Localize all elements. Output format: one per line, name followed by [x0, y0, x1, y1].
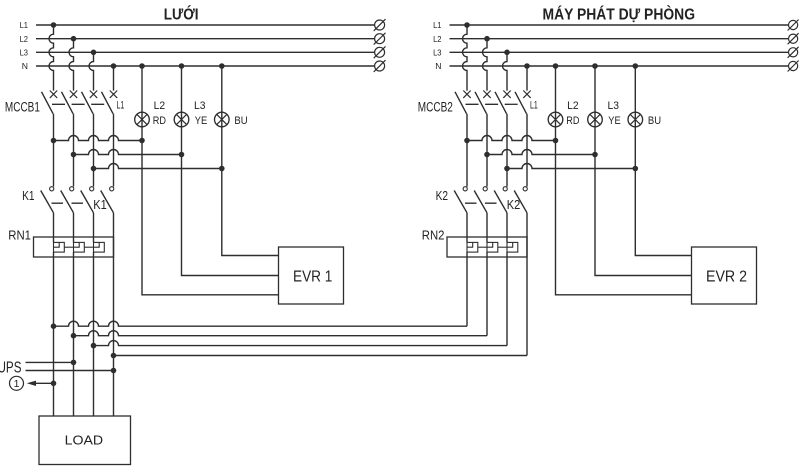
wire MCCB1 pole L3 output	[93, 114, 95, 187]
breaker MCCB2 pole L3 (X contact + blade)	[495, 91, 511, 114]
wire paralleling line 3 (grid to generator)	[94, 341, 508, 346]
svg-text:RN1: RN1	[8, 228, 31, 243]
wire N bus to lamp RD (generator)	[555, 66, 557, 141]
junction lamp column on N bus (generator)	[592, 63, 598, 69]
phase terminal L1 (grid)	[374, 19, 386, 31]
svg-text:K1: K1	[22, 189, 34, 203]
junction at lamp column 3 (grid)	[219, 166, 225, 172]
junction on pole L3 (generator)	[504, 166, 510, 172]
contactor K2 pole N (NO contact)	[514, 187, 527, 213]
junction paralleling line 1 on grid pole	[51, 323, 57, 329]
RN1 heater element pole L2	[74, 242, 85, 252]
junction L3 tap (grid)	[91, 50, 97, 56]
wire lamp column BU to EVR 2	[635, 169, 691, 256]
svg-text:MCCB2: MCCB2	[418, 100, 453, 115]
wire K1 pole L1 to RN1	[53, 213, 55, 243]
breaker MCCB2 pole L1 (X contact + blade)	[455, 91, 471, 114]
svg-text:L1: L1	[530, 100, 538, 112]
svg-text:L2: L2	[20, 34, 29, 44]
wire lamp column BU to EVR 1	[222, 169, 279, 256]
svg-text:RD: RD	[566, 115, 579, 127]
wire phase L3 to lamp/EVR node (generator)	[507, 164, 635, 169]
wire MCCB1 pole N output	[113, 114, 115, 187]
wire MCCB1 pole L2 output	[73, 114, 75, 187]
RN2 heater element pole L2	[487, 242, 498, 252]
junction L1 tap (generator)	[464, 22, 470, 28]
wire K2 pole L3 to RN2	[506, 213, 508, 243]
wire paralleling line 2 (grid to generator)	[74, 331, 488, 336]
svg-text:L3: L3	[20, 48, 29, 58]
indicator lamp RD (generator)	[548, 112, 563, 127]
wire UPS feed 1	[26, 361, 74, 363]
wire MCCB1 pole L1 output	[53, 114, 55, 187]
wire RN2 pole 1 output to paralleling line	[466, 252, 468, 326]
indicator lamp YE (generator)	[588, 112, 603, 127]
wire RN1 pole 2 output to LOAD	[73, 252, 75, 416]
phase terminal N (generator)	[788, 61, 799, 72]
contactor K2 pole L3 (NO contact)	[494, 187, 507, 213]
RN1 heater element pole L3	[94, 242, 105, 252]
svg-text:L2: L2	[154, 100, 166, 112]
wire RN2 pole 3 output to paralleling line	[506, 252, 508, 346]
wire L3 bus (generator)	[450, 51, 789, 53]
wire K2 pole L1 to RN2	[466, 213, 468, 243]
junction N tap (grid)	[111, 63, 117, 69]
wire RN2 pole 4 output to paralleling line	[526, 213, 528, 356]
wire N bus to lamp YE (generator)	[594, 66, 596, 155]
svg-text:L2: L2	[567, 100, 579, 112]
wire N bus to lamp BU (grid)	[221, 66, 223, 169]
RN1 heater element pole L1	[54, 242, 65, 252]
junction UPS feed 1	[71, 360, 77, 366]
wire MCCB2 pole L2 output	[486, 114, 488, 187]
breaker MCCB2 pole N (X contact + blade)	[515, 91, 531, 114]
MCCB2 linkage (dashed)	[466, 103, 519, 105]
wire N bus (generator)	[450, 65, 789, 67]
wire MCCB2 pole N output	[526, 114, 528, 187]
contactor K1 pole N (NO contact)	[101, 187, 114, 213]
wire L3 bus (grid)	[36, 51, 375, 53]
wire phase L1 to lamp/EVR node (grid)	[54, 136, 143, 141]
wire L2 bus (generator)	[450, 38, 789, 40]
svg-text:L2: L2	[433, 34, 442, 44]
wire paralleling line 1 (grid to generator)	[54, 321, 468, 326]
wire lamp column RD to EVR 1	[142, 141, 279, 295]
wire K1 pole L2 to RN1	[73, 213, 75, 243]
voltage relay EVR 1 body	[279, 247, 344, 304]
wire MCCB2 pole L1 output	[466, 114, 468, 187]
RN2 heater link 1	[478, 246, 487, 248]
contactor K1 pole L1 (NO contact)	[41, 187, 54, 213]
wire L2 bus (grid)	[36, 38, 375, 40]
junction lamp column on N bus (grid)	[219, 63, 225, 69]
wire RN2 pole 2 output to paralleling line	[486, 252, 488, 336]
phase terminal L3 (grid)	[374, 46, 386, 58]
indicator lamp YE (grid)	[174, 112, 189, 127]
svg-text:1: 1	[14, 378, 20, 390]
K1 linkage (dashed)	[52, 202, 85, 204]
junction UPS feed 2	[111, 368, 117, 374]
junction on pole L1 (generator)	[464, 138, 470, 144]
wire RN1 pole 3 output to LOAD	[93, 252, 95, 416]
svg-text:K2: K2	[436, 189, 448, 203]
breaker MCCB2 pole L2 (X contact + blade)	[475, 91, 491, 114]
indicator lamp RD (grid)	[135, 112, 150, 127]
wire tap N to MCCB1	[113, 66, 115, 91]
wire K2 pole L2 to RN2	[486, 213, 488, 243]
wire phase L2 to lamp/EVR node (generator)	[487, 150, 595, 155]
junction at lamp column 1 (grid)	[139, 138, 145, 144]
svg-text:L1: L1	[20, 20, 29, 30]
svg-text:L1: L1	[433, 20, 442, 30]
contactor K2 pole L2 (NO contact)	[474, 187, 487, 213]
svg-text:YE: YE	[608, 115, 620, 127]
junction L2 tap (generator)	[484, 36, 490, 42]
junction paralleling line 3 on grid pole	[91, 343, 97, 349]
indicator lamp BU (generator)	[628, 112, 643, 127]
junction callout on pole 1	[51, 381, 57, 387]
junction on pole L2 (grid)	[71, 152, 77, 158]
breaker MCCB1 pole L2 (X contact + blade)	[62, 91, 78, 114]
svg-text:EVR 2: EVR 2	[706, 269, 747, 286]
junction at lamp column 2 (generator)	[592, 152, 598, 158]
junction on pole L3 (grid)	[91, 166, 97, 172]
wire L1 bus (grid)	[36, 24, 375, 26]
RN2 heater element pole L1	[467, 242, 478, 252]
phase terminal L3 (generator)	[788, 47, 799, 58]
junction lamp column on N bus (generator)	[553, 63, 559, 69]
phase terminal N (grid)	[374, 60, 386, 72]
junction lamp column on N bus (generator)	[633, 63, 639, 69]
svg-text:UPS: UPS	[0, 359, 22, 376]
wire tap L2 to MCCB1	[69, 39, 74, 91]
junction L1 tap (grid)	[51, 22, 57, 28]
RN1 heater link 2	[84, 246, 93, 248]
wire RN1 pole 1 output to LOAD	[53, 252, 55, 416]
breaker MCCB1 pole L1 (X contact + blade)	[42, 91, 58, 114]
wire phase L1 to lamp/EVR node (generator)	[467, 136, 556, 141]
svg-text:L1: L1	[117, 100, 125, 112]
wire tap L1 to MCCB1	[49, 25, 54, 91]
RN2 heater link 2	[498, 246, 507, 248]
svg-text:BU: BU	[648, 115, 661, 127]
wire N bus to lamp RD (grid)	[141, 66, 143, 141]
RN1 heater link 1	[64, 246, 73, 248]
svg-text:L3: L3	[433, 48, 442, 58]
phase terminal L1 (generator)	[788, 20, 799, 31]
wire tap L3 to MCCB1	[89, 52, 94, 90]
wire lamp column RD to EVR 2	[556, 141, 692, 295]
wire tap L2 to MCCB2	[483, 39, 488, 91]
junction at lamp column 2 (grid)	[179, 152, 185, 158]
callout arrow	[27, 381, 54, 386]
junction L3 tap (generator)	[504, 50, 510, 56]
wire K1 pole L3 to RN1	[93, 213, 95, 243]
svg-text:N: N	[22, 61, 28, 71]
LOAD block	[39, 416, 131, 465]
contactor K1 pole L2 (NO contact)	[61, 187, 74, 213]
wire UPS feed 2	[26, 370, 114, 372]
junction lamp column on N bus (grid)	[139, 63, 145, 69]
breaker MCCB1 pole N (X contact + blade)	[102, 91, 118, 114]
voltage relay EVR 2 body	[692, 247, 757, 304]
junction N tap (generator)	[524, 63, 530, 69]
overload relay RN2 body	[447, 237, 527, 257]
svg-text:LƯỚI: LƯỚI	[164, 6, 199, 24]
overload relay RN1 body	[34, 237, 114, 257]
svg-text:RN2: RN2	[422, 228, 445, 243]
svg-text:N: N	[435, 61, 441, 71]
callout circle 1	[10, 376, 24, 390]
wire tap L1 to MCCB2	[463, 25, 468, 91]
svg-text:MCCB1: MCCB1	[5, 100, 40, 115]
junction L2 tap (grid)	[71, 36, 77, 42]
svg-text:L3: L3	[194, 100, 206, 112]
contactor K2 pole L1 (NO contact)	[454, 187, 467, 213]
wire paralleling line 4 (grid to generator)	[114, 355, 528, 357]
wire tap L3 to MCCB2	[503, 52, 508, 90]
junction at lamp column 3 (generator)	[633, 166, 639, 172]
svg-text:K1: K1	[93, 198, 107, 212]
svg-text:L3: L3	[608, 100, 620, 112]
junction paralleling line 2 on grid pole	[71, 333, 77, 339]
wire lamp column YE to EVR 2	[595, 155, 692, 276]
junction at lamp column 1 (generator)	[553, 138, 559, 144]
K2 linkage (dashed)	[465, 202, 498, 204]
junction on pole L1 (grid)	[51, 138, 57, 144]
wire N bus to lamp BU (generator)	[634, 66, 636, 169]
breaker MCCB1 pole L3 (X contact + blade)	[82, 91, 98, 114]
svg-text:K2: K2	[507, 198, 521, 212]
phase terminal L2 (grid)	[374, 33, 386, 45]
MCCB1 linkage (dashed)	[52, 103, 105, 105]
wire tap N to MCCB2	[526, 66, 528, 91]
RN2 heater element pole L3	[507, 242, 518, 252]
wire lamp column YE to EVR 1	[182, 155, 279, 276]
svg-text:RD: RD	[153, 115, 166, 127]
phase terminal L2 (generator)	[788, 33, 799, 44]
svg-text:LOAD: LOAD	[65, 432, 104, 447]
svg-text:EVR 1: EVR 1	[293, 269, 332, 286]
wire N bus to lamp YE (grid)	[181, 66, 183, 155]
junction on pole L2 (generator)	[484, 152, 490, 158]
svg-text:YE: YE	[195, 115, 207, 127]
junction paralleling line 4 on grid pole	[111, 353, 117, 359]
indicator lamp BU (grid)	[215, 112, 230, 127]
wire RN1 pole 4 output to LOAD	[113, 213, 115, 416]
svg-text:MÁY PHÁT DỰ PHÒNG: MÁY PHÁT DỰ PHÒNG	[543, 6, 696, 24]
wire MCCB2 pole L3 output	[506, 114, 508, 187]
wire N bus (grid)	[36, 65, 375, 67]
wire L1 bus (generator)	[450, 24, 789, 26]
contactor K1 pole L3 (NO contact)	[81, 187, 94, 213]
svg-text:BU: BU	[234, 115, 247, 127]
wire phase L3 to lamp/EVR node (grid)	[94, 164, 222, 169]
wire phase L2 to lamp/EVR node (grid)	[74, 150, 182, 155]
junction lamp column on N bus (grid)	[179, 63, 185, 69]
